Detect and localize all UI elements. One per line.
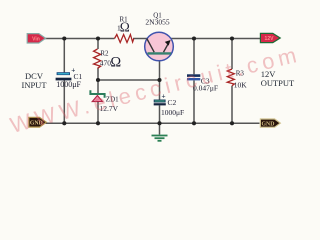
node dot bottom R3	[230, 121, 234, 125]
wire R2/ZD1 branch vertical top	[97, 39, 99, 50]
wire top rail left (Vin to R1)	[45, 38, 115, 40]
wire C1 bottom to ground rail	[63, 80, 65, 123]
node dot top C3	[192, 36, 196, 40]
wire Q1 base vertical	[159, 54, 161, 80]
node dot base left	[96, 78, 100, 82]
node dot bottom ZD1	[96, 121, 100, 125]
GND right arrow	[260, 119, 280, 127]
wire ground symbol stem	[159, 123, 161, 134]
node dot bottom C2	[157, 121, 161, 125]
svg-text:2N3055: 2N3055	[145, 18, 169, 27]
resistor R2	[94, 49, 101, 68]
node dot top R2	[96, 36, 100, 40]
svg-text:R2: R2	[100, 49, 109, 57]
node dot top C1	[62, 36, 66, 40]
wire C2 branch vertical	[159, 80, 161, 100]
wire R3 bottom to ground rail	[231, 86, 233, 124]
Q1 base bar	[148, 52, 172, 54]
Q1 collector line	[147, 39, 154, 53]
capacitor C2 (electrolytic)	[154, 94, 166, 106]
svg-text:1000μF: 1000μF	[161, 108, 184, 117]
svg-text:OUTPUT: OUTPUT	[261, 78, 295, 88]
svg-text:Ω: Ω	[120, 20, 130, 35]
12V output arrow	[260, 33, 280, 42]
Vin input arrow	[27, 34, 45, 43]
Q1 emitter line with arrow	[164, 43, 169, 53]
wire R2 bottom to node	[97, 68, 99, 93]
GND left arrow	[29, 117, 47, 127]
wire base node horizontal (R2/ZD1 node to Q1 base)	[98, 79, 160, 81]
node dot base right	[157, 78, 161, 82]
wire R3 branch vertical top	[231, 39, 233, 70]
node dot bottom C1	[62, 121, 66, 125]
wire bottom ground rail	[46, 122, 260, 124]
wire C3 bottom to ground rail	[193, 81, 195, 124]
resistor R3	[227, 69, 234, 86]
node dot bottom C3	[192, 121, 196, 125]
wire C2 bottom to ground rail	[159, 106, 161, 124]
wire top rail Q1 emitter to 12V output	[171, 38, 261, 40]
capacitor C3	[187, 74, 200, 80]
svg-text:GND: GND	[262, 121, 275, 127]
wire C1 branch vertical top	[63, 39, 65, 73]
svg-text:INPUT: INPUT	[21, 80, 47, 90]
svg-text:12V: 12V	[265, 36, 275, 42]
svg-text:C2: C2	[168, 98, 177, 107]
wire C3 branch vertical top	[193, 39, 195, 75]
wire ZD1 anode to ground rail	[97, 102, 99, 124]
svg-text:Ω: Ω	[110, 55, 121, 71]
resistor R1	[115, 35, 134, 43]
node dot top R3	[230, 36, 234, 40]
svg-text:Vin: Vin	[32, 36, 40, 42]
transistor Q1 body	[145, 32, 174, 61]
zener diode ZD1	[90, 90, 104, 101]
ground symbol	[152, 136, 168, 141]
svg-text:10K: 10K	[234, 81, 248, 90]
svg-text:1000μF: 1000μF	[56, 80, 81, 89]
capacitor C1 (electrolytic)	[56, 67, 76, 80]
wire top rail R1 to Q1 collector	[133, 38, 147, 40]
